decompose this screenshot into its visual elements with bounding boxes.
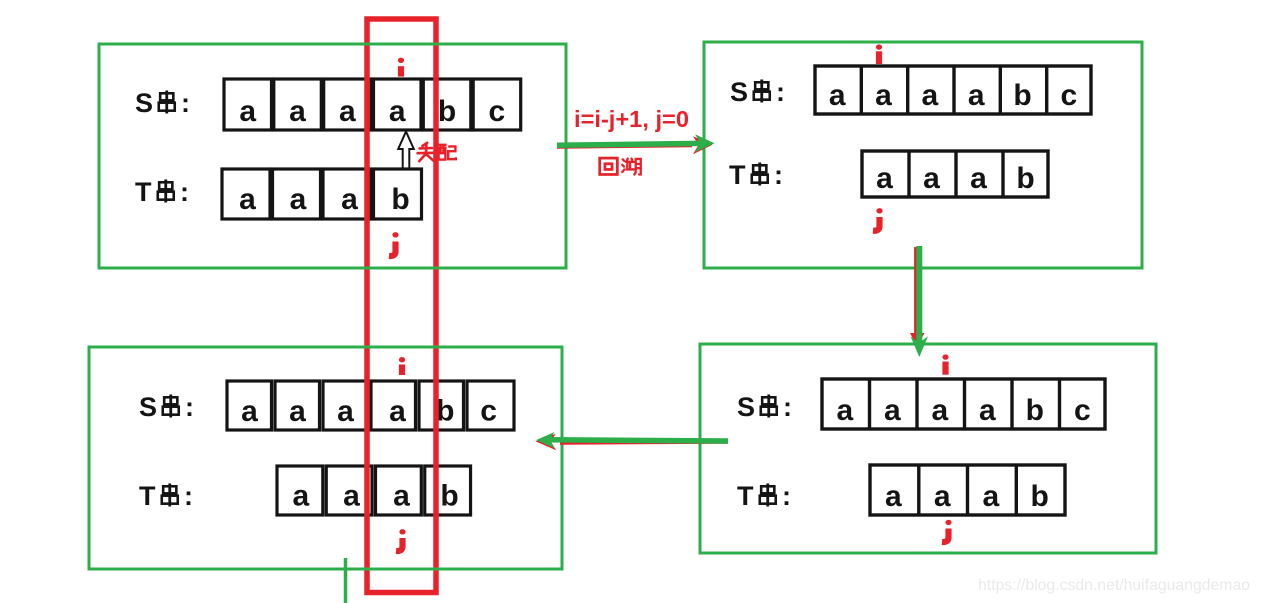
- svg-text:c: c: [1074, 394, 1091, 427]
- box3 bottom-left green frame: [89, 347, 562, 569]
- arrow box4->box3 green: [536, 432, 728, 448]
- box3 S letters: [241, 395, 497, 429]
- box2 j pointer: [873, 208, 883, 231]
- box1 mismatch hollow arrow: [398, 132, 414, 170]
- svg-text:c: c: [489, 95, 506, 128]
- box2 T letters: [876, 162, 1035, 195]
- svg-text:c: c: [1060, 79, 1077, 112]
- box4 S cells: [822, 379, 1105, 429]
- box4 label T: [737, 481, 791, 511]
- svg-text:a: a: [389, 95, 406, 128]
- box4 T cells: [870, 465, 1065, 515]
- red focus rectangle overlay: [367, 19, 436, 593]
- svg-text:a: a: [931, 394, 948, 427]
- svg-text:c: c: [480, 395, 497, 428]
- box2 top-right green frame: [704, 42, 1142, 268]
- svg-text:a: a: [876, 162, 893, 195]
- svg-text:a: a: [875, 79, 892, 112]
- box2 label S: [730, 77, 785, 107]
- box2 S letters: [829, 79, 1077, 112]
- box1 T cells: [222, 169, 422, 219]
- svg-text:b: b: [1031, 480, 1049, 513]
- svg-text:i=i-j+1, j=0: i=i-j+1, j=0: [574, 106, 689, 132]
- box4 j pointer: [942, 520, 952, 542]
- svg-text:a: a: [343, 480, 360, 513]
- svg-text:a: a: [393, 480, 410, 513]
- svg-text:a: a: [289, 395, 306, 428]
- arrow box2->box4 green: [911, 246, 929, 357]
- arrow box1->box2 red underlay: [557, 136, 713, 154]
- svg-text:a: a: [968, 79, 985, 112]
- box1 T letters: [239, 183, 410, 216]
- svg-text:b: b: [438, 95, 456, 128]
- box3 j pointer: [396, 529, 406, 551]
- svg-text:a: a: [239, 183, 256, 216]
- box2 label T: [729, 160, 783, 190]
- box4 S letters: [836, 394, 1090, 427]
- box1 label T: [135, 177, 189, 207]
- svg-text:a: a: [983, 480, 1000, 513]
- box2 i pointer: [876, 44, 882, 64]
- box1 i pointer: [398, 58, 404, 77]
- svg-text:a: a: [292, 480, 309, 513]
- box1 label S: [135, 88, 190, 118]
- svg-text:b: b: [391, 183, 409, 216]
- box4 T letters: [885, 480, 1049, 513]
- between-boxes 回溯: [600, 158, 641, 174]
- svg-text:b: b: [1026, 394, 1044, 427]
- svg-text:a: a: [241, 395, 258, 428]
- box1 S cells: [224, 79, 521, 130]
- box1 mismatch text 失配: [418, 143, 456, 161]
- svg-text:a: a: [836, 394, 853, 427]
- box2 S cells: [815, 66, 1091, 114]
- svg-text:a: a: [829, 79, 846, 112]
- svg-text:a: a: [979, 394, 996, 427]
- svg-text:a: a: [921, 79, 938, 112]
- svg-text:a: a: [885, 480, 902, 513]
- box3 bottom exit green line: [344, 558, 348, 603]
- svg-text:a: a: [923, 162, 940, 195]
- svg-text:a: a: [970, 162, 987, 195]
- svg-text:a: a: [290, 183, 307, 216]
- svg-text:https://blog.csdn.net/huifagua: https://blog.csdn.net/huifaguangdemao: [978, 577, 1250, 594]
- svg-text:b: b: [436, 395, 454, 428]
- box3 T letters: [292, 480, 458, 513]
- svg-text:b: b: [1013, 79, 1031, 112]
- svg-text:a: a: [339, 95, 356, 128]
- box2 T cells: [862, 151, 1048, 197]
- svg-text:a: a: [884, 394, 901, 427]
- box3 label S: [139, 392, 194, 422]
- svg-text:a: a: [337, 395, 354, 428]
- svg-text:a: a: [239, 95, 256, 128]
- box4 bottom-right green frame: [700, 344, 1156, 553]
- box3 T cells: [277, 466, 471, 515]
- arrow box1->box2 green: [557, 134, 715, 152]
- svg-text:b: b: [440, 480, 458, 513]
- box1 S letters: [239, 95, 505, 128]
- box1 j pointer: [389, 232, 399, 256]
- box4 i pointer: [942, 354, 948, 374]
- box3 label T: [139, 481, 193, 511]
- box3 i pointer: [399, 357, 405, 375]
- arrow box4->box3 red underlay: [535, 434, 728, 450]
- svg-text:a: a: [289, 95, 306, 128]
- svg-text:a: a: [341, 183, 358, 216]
- arrow box2->box4 red underlay: [910, 247, 925, 347]
- box4 label S: [737, 392, 792, 422]
- svg-text:b: b: [1016, 162, 1034, 195]
- svg-text:a: a: [389, 395, 406, 428]
- svg-text:a: a: [934, 480, 951, 513]
- box3 S cells: [227, 381, 514, 430]
- box1 top-left green frame: [99, 44, 566, 268]
